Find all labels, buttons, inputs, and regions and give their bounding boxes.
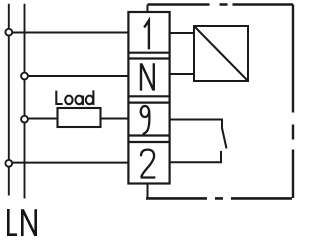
wire top tab to enclosure bbox=[147, 5, 149, 13]
device square U1 bbox=[194, 26, 248, 81]
relay contact fixed lead bbox=[170, 151, 221, 162]
label L bbox=[8, 209, 17, 235]
wire bottom tab to enclosure bbox=[147, 184, 149, 199]
wire terminal N to device square bbox=[170, 73, 194, 75]
wire Load to terminal 9 bbox=[101, 118, 129, 120]
terminal divider 1/N lower bbox=[128, 57, 169, 59]
load box bbox=[58, 108, 101, 127]
enclosure dashed right border bbox=[292, 5, 294, 199]
device square diagonal bbox=[194, 26, 248, 81]
node C junction circle on N bus bbox=[21, 116, 28, 123]
enclosure dashed bottom border bbox=[146, 197, 293, 200]
wire terminal 9 to contact bbox=[170, 120, 222, 130]
label terminal 1 bbox=[144, 20, 149, 49]
label terminal 2 bbox=[141, 150, 156, 178]
node D junction circle on L bus bbox=[5, 160, 12, 167]
terminal divider 1/N upper bbox=[128, 52, 169, 54]
terminal divider N/9 upper bbox=[128, 95, 169, 97]
relay contact blade bbox=[222, 128, 227, 149]
terminal divider 9/2 upper bbox=[128, 134, 169, 136]
terminal divider N/9 lower bbox=[128, 101, 169, 103]
wire L bus to terminal 2 bbox=[9, 162, 129, 164]
wire N bus vertical bbox=[24, 4, 26, 199]
label terminal 9 bbox=[141, 106, 150, 134]
wire N bus to Load bbox=[25, 118, 58, 120]
label N (bottom) bbox=[22, 209, 35, 236]
wire terminal 1 to device square bbox=[170, 32, 194, 34]
wire N bus to terminal N bbox=[25, 75, 129, 77]
enclosure dashed top border bbox=[148, 3, 294, 5]
wire L bus vertical bbox=[8, 4, 10, 196]
node B junction circle on N bus bbox=[21, 73, 28, 80]
terminal block outline bbox=[128, 12, 169, 184]
label terminal N bbox=[141, 63, 154, 90]
node A junction circle on L bus bbox=[5, 29, 12, 36]
label Load bbox=[56, 90, 93, 105]
wire L to terminal 1 bbox=[9, 32, 129, 34]
terminal divider 9/2 lower bbox=[128, 141, 169, 143]
